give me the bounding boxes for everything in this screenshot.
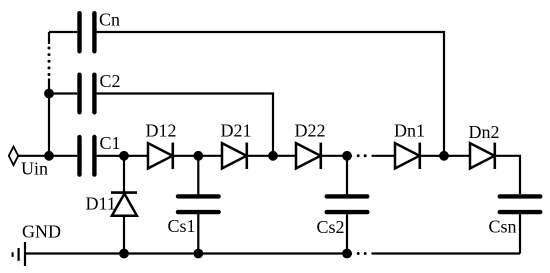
wire Csn bottom lead to bottom rail corner xyxy=(519,214,521,253)
node at Cs2 top xyxy=(342,151,352,161)
svg-text:GND: GND xyxy=(22,222,61,242)
wire from main rail down to D11 cathode xyxy=(123,156,125,193)
node bottom rail at D11 xyxy=(119,249,129,259)
node main rail at left column xyxy=(44,151,54,161)
diode Dn1 xyxy=(395,143,420,169)
svg-text:D12: D12 xyxy=(146,121,177,141)
svg-text:Uin: Uin xyxy=(21,159,48,179)
wire main rail Dn1 to Dn2 xyxy=(420,155,470,157)
wire top rail left segment to Cn xyxy=(49,31,77,33)
diode D21 xyxy=(222,143,247,169)
diode Dn2 xyxy=(470,143,495,169)
svg-text:Cs1: Cs1 xyxy=(168,216,196,236)
svg-text:Dn2: Dn2 xyxy=(469,122,500,142)
capacitor Cs1 xyxy=(178,196,219,212)
wire dotted continuation on main rail xyxy=(357,154,367,157)
svg-text:Cn: Cn xyxy=(99,10,120,30)
wire main rail Dn2 to right corner down to Csn xyxy=(495,156,520,194)
capacitor C2 xyxy=(80,75,95,113)
capacitor Cs2 xyxy=(327,196,368,212)
node between Dn1 and Dn2 xyxy=(439,151,449,161)
wire Cs2 bottom lead xyxy=(346,214,348,253)
wire C2 rail left stub xyxy=(49,92,77,94)
wire top rail from Cn to right corner and down to node between Dn1 and Dn2 xyxy=(97,32,444,156)
node at C2 left xyxy=(44,89,54,99)
ground symbol xyxy=(13,242,25,266)
svg-text:Cs2: Cs2 xyxy=(317,217,345,237)
capacitor C1 xyxy=(80,137,95,175)
port Uin diamond terminal xyxy=(9,147,18,166)
wire main rail resuming to Dn1 xyxy=(372,155,396,157)
node at Cs1 top xyxy=(193,151,203,161)
capacitor Cn xyxy=(80,13,95,51)
svg-text:D22: D22 xyxy=(295,121,326,141)
wire dotted continuation on bottom rail xyxy=(357,252,367,255)
wire Cs1 bottom lead xyxy=(197,214,199,253)
svg-text:D21: D21 xyxy=(221,121,252,141)
wire left vertical from C2 node to main rail xyxy=(48,79,50,157)
node bottom rail at Cs2 xyxy=(342,249,352,259)
wire Cs2 top lead xyxy=(346,156,348,195)
wire main rail from Uin to C1 xyxy=(18,155,77,157)
wire main rail D21 to D22 xyxy=(247,155,296,157)
capacitor Csn xyxy=(500,196,541,212)
svg-text:Csn: Csn xyxy=(489,217,517,237)
svg-text:C1: C1 xyxy=(100,133,121,153)
wire main rail D22 to dotted gap xyxy=(321,155,352,157)
node between D21 and D22 xyxy=(268,151,278,161)
wire Cs1 top lead xyxy=(197,156,199,195)
node at C1 right / D11 top xyxy=(119,151,129,161)
wire short solid stub below top-left corner xyxy=(48,32,50,44)
wire from D11 anode down to bottom rail xyxy=(123,216,125,254)
wire dotted continuation between Cn branch and C2 node xyxy=(48,47,51,77)
wire bottom rail from ground to dotted gap xyxy=(25,252,352,254)
wire C2 rail to right corner and down to node between D21 and D22 xyxy=(97,94,273,157)
svg-text:D11: D11 xyxy=(86,194,116,214)
svg-text:C2: C2 xyxy=(100,71,121,91)
wire main rail D12 to D21 xyxy=(173,155,222,157)
diode D22 xyxy=(296,143,321,169)
diode D12 xyxy=(148,143,173,169)
svg-text:Dn1: Dn1 xyxy=(394,121,425,141)
node bottom rail at Cs1 xyxy=(193,249,203,259)
wire main rail C1 to D12 xyxy=(97,155,148,157)
wire bottom rail resuming to Csn corner xyxy=(372,252,521,254)
diode D11 xyxy=(111,193,137,216)
